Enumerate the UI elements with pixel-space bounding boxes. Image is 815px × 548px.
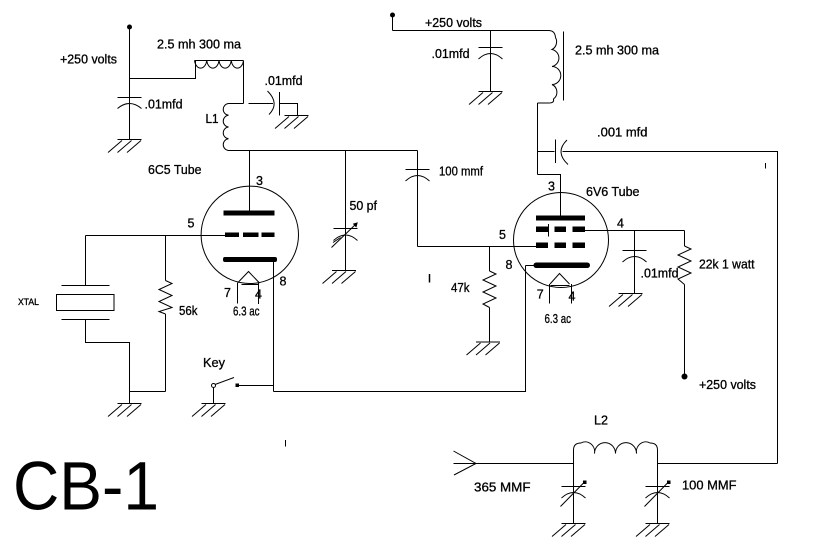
svg-text:365 MMF: 365 MMF <box>474 481 531 495</box>
svg-text:100 MMF: 100 MMF <box>682 479 737 493</box>
svg-text:+250 volts: +250 volts <box>425 16 482 30</box>
svg-text:8: 8 <box>280 275 287 289</box>
svg-text:2.5 mh 300 ma: 2.5 mh 300 ma <box>575 44 659 58</box>
svg-text:22k 1 watt: 22k 1 watt <box>699 258 755 272</box>
svg-text:CB-1: CB-1 <box>13 448 159 525</box>
svg-text:47k: 47k <box>451 281 470 295</box>
svg-text:8: 8 <box>506 258 513 272</box>
svg-text:L1: L1 <box>206 112 219 126</box>
svg-text:2.5 mh 300 ma: 2.5 mh 300 ma <box>157 38 241 52</box>
svg-text:56k: 56k <box>179 304 198 318</box>
svg-text:3: 3 <box>548 180 555 194</box>
svg-text:+250 volts: +250 volts <box>60 53 117 67</box>
svg-text:.001 mfd: .001 mfd <box>597 126 648 140</box>
svg-text:3: 3 <box>256 174 263 188</box>
svg-text:5: 5 <box>499 228 506 242</box>
svg-text:4: 4 <box>617 217 624 231</box>
svg-text:Key: Key <box>203 356 226 370</box>
svg-text:6.3 ac: 6.3 ac <box>545 312 572 326</box>
svg-text:4: 4 <box>255 288 262 302</box>
svg-text:7: 7 <box>224 286 231 300</box>
svg-text:6V6 Tube: 6V6 Tube <box>586 185 640 199</box>
svg-text:5: 5 <box>188 217 195 231</box>
svg-text:.01mfd: .01mfd <box>641 267 679 281</box>
svg-text:.01mfd: .01mfd <box>265 74 303 88</box>
svg-text:4: 4 <box>569 290 576 304</box>
svg-text:.01mfd: .01mfd <box>145 98 183 112</box>
svg-text:6.3 ac: 6.3 ac <box>233 305 260 319</box>
svg-text:100 mmf: 100 mmf <box>439 165 483 179</box>
svg-text:50 pf: 50 pf <box>350 199 378 213</box>
svg-text:+250 volts: +250 volts <box>699 378 756 392</box>
svg-text:XTAL: XTAL <box>18 297 39 307</box>
svg-text:7: 7 <box>537 287 544 301</box>
svg-text:6C5 Tube: 6C5 Tube <box>148 163 202 177</box>
svg-text:L2: L2 <box>594 414 608 428</box>
svg-text:.01mfd: .01mfd <box>432 47 470 61</box>
